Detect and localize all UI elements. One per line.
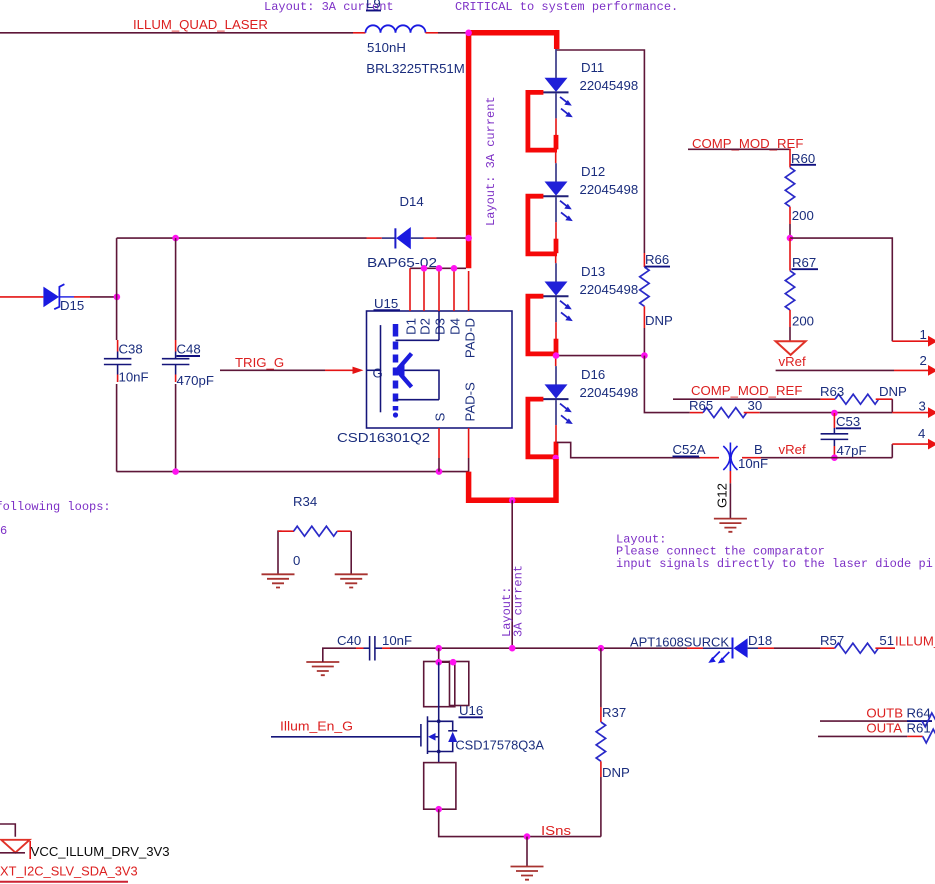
wire comparator line to R65 bbox=[672, 412, 690, 414]
svg-text:3: 3 bbox=[919, 399, 926, 414]
svg-text:D18: D18 bbox=[748, 633, 772, 648]
pin 2 off-page bbox=[894, 369, 929, 371]
pin PAD-D bbox=[468, 271, 470, 311]
svg-text:51: 51 bbox=[879, 633, 894, 648]
svg-text:10nF: 10nF bbox=[738, 456, 768, 471]
LED D13 bbox=[528, 282, 573, 354]
svg-text:TRIG_G: TRIG_G bbox=[235, 355, 284, 370]
svg-text:D12: D12 bbox=[581, 164, 605, 179]
capacitor C38 bbox=[111, 340, 123, 384]
resistor R57 bbox=[821, 647, 835, 649]
wire ISns to ground bbox=[526, 837, 528, 867]
ground ISns bbox=[511, 867, 544, 880]
svg-text:R57: R57 bbox=[820, 633, 844, 648]
power symbol VCC_ILLUM_DRV_3V3 bbox=[0, 824, 15, 837]
resistor R65 bbox=[690, 412, 703, 414]
mosfet U15 box bbox=[367, 311, 513, 428]
svg-text:R34: R34 bbox=[293, 494, 317, 509]
U16 mosfet symbol bbox=[438, 662, 440, 721]
capacitor C53 bbox=[833, 413, 835, 428]
junction D14 at thick column bbox=[465, 235, 472, 242]
inductor L9 bbox=[366, 25, 426, 32]
junction U16 source pad bbox=[435, 806, 442, 813]
wire L9 to junction bbox=[438, 32, 466, 34]
thick wire top run bbox=[469, 33, 557, 49]
net OUTA wire bbox=[818, 735, 907, 737]
wire R63 down to pin3 line bbox=[891, 399, 893, 412]
junction D15 bbox=[114, 294, 121, 301]
U16 source pad rect bbox=[424, 763, 456, 810]
svg-text:22045498: 22045498 bbox=[580, 385, 639, 400]
capacitor C52 (3-terminal) bbox=[700, 457, 719, 459]
wire R65 to pin3 bbox=[760, 412, 893, 414]
capacitor C48 bbox=[170, 340, 182, 384]
capacitor C40 bbox=[356, 647, 364, 649]
svg-text:470pF: 470pF bbox=[177, 373, 214, 388]
wire U16 source to ISns bbox=[439, 809, 601, 836]
wire anode feed D11 bbox=[555, 49, 557, 78]
junction D13 tap bbox=[553, 352, 560, 359]
wire C48 rail bbox=[175, 238, 177, 472]
svg-text:U16: U16 bbox=[459, 703, 483, 718]
svg-text:1: 1 bbox=[920, 327, 927, 342]
resistor R61 edge bbox=[907, 735, 922, 737]
svg-text:VCC_ILLUM_DRV_3V3: VCC_ILLUM_DRV_3V3 bbox=[31, 844, 170, 859]
diode D14 bbox=[117, 237, 367, 239]
svg-text:200: 200 bbox=[792, 314, 814, 329]
junction at L9 output bbox=[465, 30, 472, 37]
svg-text:CSD16301Q2: CSD16301Q2 bbox=[337, 430, 430, 445]
wire COMP_MOD_REF to R63 bbox=[673, 398, 821, 400]
wire left rail C38 bbox=[116, 238, 118, 472]
junction U16 pad B bbox=[450, 659, 457, 666]
svg-text:D15: D15 bbox=[60, 298, 84, 313]
svg-text:PAD-S: PAD-S bbox=[463, 382, 478, 422]
svg-text:D2: D2 bbox=[418, 318, 433, 335]
junction S pin bbox=[436, 468, 443, 475]
svg-text:C48: C48 bbox=[177, 342, 201, 357]
svg-text:10nF: 10nF bbox=[119, 370, 149, 385]
svg-text:4: 4 bbox=[918, 426, 925, 441]
junction D4 pin bbox=[451, 265, 458, 272]
svg-text:vRef: vRef bbox=[779, 354, 806, 369]
svg-text:ILLUM_QUAD_LASER: ILLUM_QUAD_LASER bbox=[133, 17, 268, 32]
junction D16 bracket bbox=[552, 455, 559, 462]
thick wire main column bbox=[466, 33, 472, 268]
thick red bottom loop bbox=[469, 459, 556, 500]
svg-text:OUTA: OUTA bbox=[866, 721, 902, 736]
junction C48 bottom bbox=[172, 468, 179, 475]
svg-text:C40: C40 bbox=[337, 633, 361, 648]
junction R60/R67 bbox=[787, 235, 794, 242]
wire top rail to R66 bbox=[557, 50, 645, 253]
svg-text:ISns: ISns bbox=[541, 823, 571, 838]
wire D12 to D13 bbox=[555, 256, 557, 263]
resistor R34 bbox=[278, 531, 282, 574]
pin L9 left bbox=[353, 32, 366, 34]
pin D4 bbox=[453, 268, 455, 311]
wire D13 tap to R66 bbox=[556, 355, 644, 357]
junction D3 pin bbox=[436, 265, 443, 272]
svg-text:CRITICAL to system performance: CRITICAL to system performance. bbox=[455, 0, 678, 14]
resistor R37 bbox=[600, 648, 602, 707]
svg-text:R61: R61 bbox=[907, 721, 931, 736]
wire bottom rail bbox=[117, 471, 469, 473]
svg-text:0: 0 bbox=[293, 553, 300, 568]
junction loop tap at rail bbox=[509, 645, 516, 652]
junction C53 bottom bbox=[831, 454, 838, 461]
pin 4 off-page bbox=[891, 444, 893, 458]
svg-text:16: 16 bbox=[0, 524, 7, 538]
junction R66 bottom bbox=[641, 352, 648, 359]
wire D11 to D12 bbox=[555, 152, 557, 163]
pin PAD-S bbox=[468, 428, 470, 458]
svg-text:D11: D11 bbox=[581, 60, 604, 75]
D18 emission arrows bbox=[713, 652, 720, 659]
wire low rail bbox=[390, 647, 687, 649]
pin C52 ground leg bbox=[729, 471, 731, 483]
svg-text:S: S bbox=[433, 413, 448, 422]
U15 mosfet symbol bbox=[367, 369, 381, 371]
svg-text:D3: D3 bbox=[433, 318, 448, 335]
svg-text:CSD17578Q3A: CSD17578Q3A bbox=[455, 738, 544, 753]
pin S bbox=[438, 428, 440, 458]
svg-text:vRef: vRef bbox=[779, 442, 806, 457]
svg-text:D14: D14 bbox=[400, 194, 424, 209]
svg-text:XT_I2C_SLV_SDA_3V3: XT_I2C_SLV_SDA_3V3 bbox=[0, 864, 138, 879]
svg-text:10nF: 10nF bbox=[382, 633, 412, 648]
svg-text:following loops:: following loops: bbox=[0, 500, 111, 514]
svg-text:OUTB: OUTB bbox=[866, 706, 903, 721]
pin D3 bbox=[438, 268, 440, 311]
pin D1 bbox=[409, 268, 411, 311]
svg-text:R67: R67 bbox=[792, 255, 816, 270]
resistor R66 bbox=[643, 253, 645, 267]
svg-text:R65: R65 bbox=[689, 398, 713, 413]
pin 1 off-page bbox=[892, 340, 929, 342]
junction R37 top bbox=[598, 645, 605, 652]
wire COMP_MOD_REF to R60 bbox=[688, 148, 790, 151]
ground R34 right bbox=[335, 574, 368, 587]
wire D18 to R57 bbox=[748, 647, 758, 649]
svg-text:Layout: 3A current: Layout: 3A current bbox=[484, 96, 498, 226]
U15 pin bus wire bbox=[410, 267, 466, 269]
svg-text:B: B bbox=[754, 442, 763, 457]
svg-text:47pF: 47pF bbox=[837, 443, 867, 458]
svg-text:D4: D4 bbox=[448, 318, 463, 335]
resistor R67 bbox=[789, 238, 791, 271]
svg-text:C53: C53 bbox=[836, 414, 860, 429]
svg-text:COMP_MOD_REF: COMP_MOD_REF bbox=[691, 383, 802, 398]
svg-text:input signals directly to the: input signals directly to the laser diod… bbox=[616, 557, 933, 571]
svg-text:2: 2 bbox=[920, 353, 927, 368]
U16 drain pad rects bbox=[424, 662, 455, 707]
svg-text:C52A: C52A bbox=[673, 442, 706, 457]
svg-text:22045498: 22045498 bbox=[580, 182, 639, 197]
svg-text:510nH: 510nH bbox=[367, 40, 406, 55]
junction C48 top bbox=[172, 235, 179, 242]
junction C53 top bbox=[831, 410, 838, 417]
ground R34 left bbox=[262, 574, 295, 587]
svg-text:DNP: DNP bbox=[645, 313, 673, 328]
junction tap on loop bbox=[509, 497, 516, 504]
LED D16 bbox=[528, 384, 573, 456]
wire D16 sense step bbox=[557, 442, 700, 457]
pin 3 off-page bbox=[892, 412, 929, 414]
junction D2 pin bbox=[421, 265, 428, 272]
svg-text:R63: R63 bbox=[820, 384, 844, 399]
net OUTB wire bbox=[820, 720, 907, 722]
svg-text:C38: C38 bbox=[119, 342, 143, 357]
power symbol vRef (R67) bbox=[776, 341, 806, 355]
wire vRef net to pin2 bbox=[776, 369, 894, 371]
ground G12 bbox=[714, 519, 747, 532]
wire junction to pin1 corner bbox=[790, 238, 892, 341]
junction U16 drain bbox=[435, 645, 442, 652]
wire to G12 ground bbox=[729, 483, 731, 518]
wire XT_I2C bbox=[0, 881, 128, 883]
ground C40 bbox=[306, 662, 339, 675]
svg-text:R60: R60 bbox=[791, 151, 815, 166]
resistor R64 edge bbox=[922, 713, 935, 727]
svg-text:ILLUM_: ILLUM_ bbox=[895, 634, 935, 649]
svg-text:30: 30 bbox=[748, 398, 763, 413]
mosfet U16 bbox=[438, 648, 440, 662]
LED D11 bbox=[528, 78, 573, 150]
junction ISns ground bbox=[524, 833, 531, 840]
resistor R63 bbox=[821, 398, 835, 400]
svg-text:R37: R37 bbox=[602, 705, 626, 720]
svg-text:L9: L9 bbox=[366, 0, 381, 11]
svg-text:BRL3225TR51M: BRL3225TR51M bbox=[366, 61, 465, 76]
svg-text:APT1608SURCK: APT1608SURCK bbox=[630, 634, 729, 649]
junction U16 pad A bbox=[435, 659, 442, 666]
svg-text:200: 200 bbox=[792, 208, 814, 223]
svg-text:DNP: DNP bbox=[879, 384, 907, 399]
svg-text:Illum_En_G: Illum_En_G bbox=[280, 719, 353, 734]
LED D12 bbox=[528, 182, 573, 254]
resistor R60 bbox=[789, 149, 791, 168]
svg-text:D1: D1 bbox=[404, 318, 419, 335]
svg-text:G12: G12 bbox=[715, 483, 730, 508]
svg-text:U15: U15 bbox=[374, 296, 398, 311]
svg-text:22045498: 22045498 bbox=[580, 78, 639, 93]
svg-text:22045498: 22045498 bbox=[580, 282, 639, 297]
svg-text:DNP: DNP bbox=[602, 765, 630, 780]
wire R66 to comparator line bbox=[644, 356, 672, 413]
svg-text:D13: D13 bbox=[581, 264, 605, 279]
pin D2 bbox=[423, 268, 425, 311]
svg-text:R64: R64 bbox=[907, 706, 931, 721]
wire loop to low rail bbox=[511, 500, 513, 648]
diode D15 bbox=[0, 296, 43, 298]
svg-text:D16: D16 bbox=[581, 367, 605, 382]
pin L9 right bbox=[426, 32, 439, 34]
svg-text:R66: R66 bbox=[645, 252, 669, 267]
svg-text:PAD-D: PAD-D bbox=[463, 318, 478, 358]
wire D13 to D16 bbox=[555, 356, 557, 367]
wire ILLUM_QUAD_LASER to L9 bbox=[0, 32, 353, 34]
